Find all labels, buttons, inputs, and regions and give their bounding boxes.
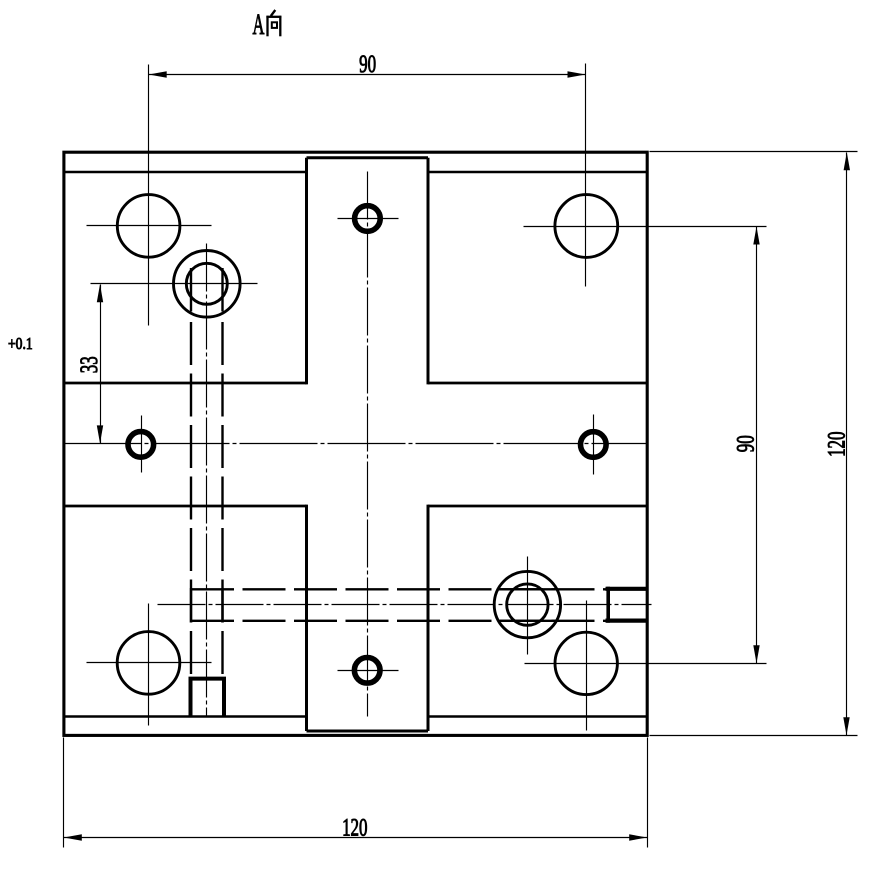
view label CJK character xiang <box>266 10 281 36</box>
hole top-left <box>117 195 180 258</box>
extension line 120 bottom left <box>63 738 65 848</box>
bottom inner step line right <box>428 715 647 718</box>
vertical boss band bottom edge <box>307 730 429 733</box>
right edge notch bottom edge <box>606 618 648 622</box>
dimension 120 bottom line <box>64 837 648 839</box>
dimension 120 bottom right arrow <box>629 834 647 840</box>
hidden slot left edge dashed <box>190 322 192 677</box>
center line small hole left vertical <box>141 416 143 473</box>
center line counterbore bottom-right vertical <box>527 557 529 655</box>
center line small hole bottom horizontal <box>338 670 399 672</box>
svg-text:120: 120 <box>822 431 850 456</box>
counterbore hole top-left outer <box>174 250 241 317</box>
svg-text:A: A <box>253 8 265 41</box>
hidden slot right edge solid chord through counterbore <box>221 268 223 312</box>
hole bottom-left <box>117 632 180 695</box>
vertical boss band right edge upper <box>427 158 430 385</box>
bottom inner step line left <box>64 715 307 718</box>
bottom slot rectangle top edge <box>189 677 227 681</box>
dimension 120 right bottom arrow <box>843 717 849 735</box>
vertical boss band top edge <box>307 156 429 159</box>
center line hole bottom-right horizontal extension to 90 dim <box>525 663 767 665</box>
svg-text:90: 90 <box>359 50 376 78</box>
vertical boss band left edge upper <box>305 158 308 385</box>
center line hidden slot horizontal <box>158 604 652 606</box>
center line small hole top horizontal <box>338 218 399 220</box>
hidden horizontal slot top edge solid chord through counterbore <box>498 588 557 590</box>
small hole right <box>581 432 607 458</box>
counterbore hole bottom-right inner <box>507 584 548 625</box>
horizontal boss band bottom edge left <box>64 505 307 508</box>
center line hole top-left horizontal <box>87 225 212 227</box>
horizontal boss band top edge right <box>428 382 647 385</box>
center line small hole top vertical <box>367 172 369 717</box>
small hole left <box>128 432 154 458</box>
hidden slot left edge solid chord through counterbore <box>190 268 192 312</box>
hole top-right <box>555 195 618 258</box>
plate outer outline <box>64 152 647 735</box>
bottom slot rectangle right edge <box>222 679 226 717</box>
dimension 90 top left arrow <box>149 71 167 77</box>
dimension 120 right top arrow <box>844 152 850 170</box>
center line hidden slot vertical <box>206 244 208 717</box>
counterbore hole bottom-right outer <box>494 571 560 637</box>
extension line 120 bottom right <box>647 738 649 848</box>
top inner step line right <box>428 171 647 174</box>
svg-text:+0.1: +0.1 <box>8 335 33 354</box>
small hole top <box>355 206 381 232</box>
vertical boss band right edge lower <box>427 505 430 731</box>
hidden horizontal slot bottom edge dashed <box>191 620 607 622</box>
center line hole top-right vertical with 90 dim extension <box>585 64 587 287</box>
svg-text:90: 90 <box>731 435 759 452</box>
center line counterbore top-left horizontal <box>91 283 258 285</box>
dimension 90 top line <box>149 74 586 76</box>
dimension 120 right line <box>846 153 848 736</box>
dimension 90 right bottom arrow <box>753 645 759 663</box>
dimension 33 top arrow <box>97 284 103 302</box>
counterbore hole top-left inner <box>186 263 227 304</box>
svg-text:33: 33 <box>75 356 103 373</box>
horizontal boss band bottom edge right <box>428 505 647 508</box>
extension line 120 right top <box>650 151 858 153</box>
hole bottom-right <box>555 632 617 694</box>
small hole bottom <box>354 658 380 684</box>
center line hole bottom-left vertical <box>148 604 150 726</box>
center line hole top-left vertical with 90 dim extension <box>148 65 150 326</box>
dimension 120 bottom left arrow <box>64 834 82 840</box>
vertical boss band left edge lower <box>305 505 308 731</box>
dimension 90 right line <box>756 227 758 664</box>
right edge notch top edge <box>606 587 648 591</box>
right edge notch left edge <box>606 587 610 623</box>
dimension 33 bottom arrow <box>97 425 103 443</box>
center line hole bottom-right vertical <box>586 601 588 731</box>
hidden slot left edge solid segment at cross slot <box>190 588 192 623</box>
center line hole top-right horizontal extension to 90 dim <box>524 226 767 228</box>
center line small hole right vertical <box>593 415 595 475</box>
hidden slot right edge solid segment at cross slot <box>221 588 223 623</box>
hidden horizontal slot bottom edge solid chord through counterbore <box>498 620 557 622</box>
center line hole bottom-left horizontal <box>87 662 212 664</box>
top inner step line left <box>64 171 307 174</box>
dimension 90 top right arrow <box>568 71 586 77</box>
bottom slot rectangle left edge <box>189 679 193 717</box>
dimension 90 right top arrow <box>753 227 759 245</box>
hidden slot right edge dashed <box>221 322 223 677</box>
svg-text:120: 120 <box>342 813 367 841</box>
extension line 120 right bottom <box>650 735 858 737</box>
center line horizontal main <box>64 443 648 445</box>
hidden horizontal slot top edge dashed <box>191 588 607 590</box>
dimension 33 line <box>100 285 102 444</box>
horizontal boss band top edge left <box>64 382 307 385</box>
